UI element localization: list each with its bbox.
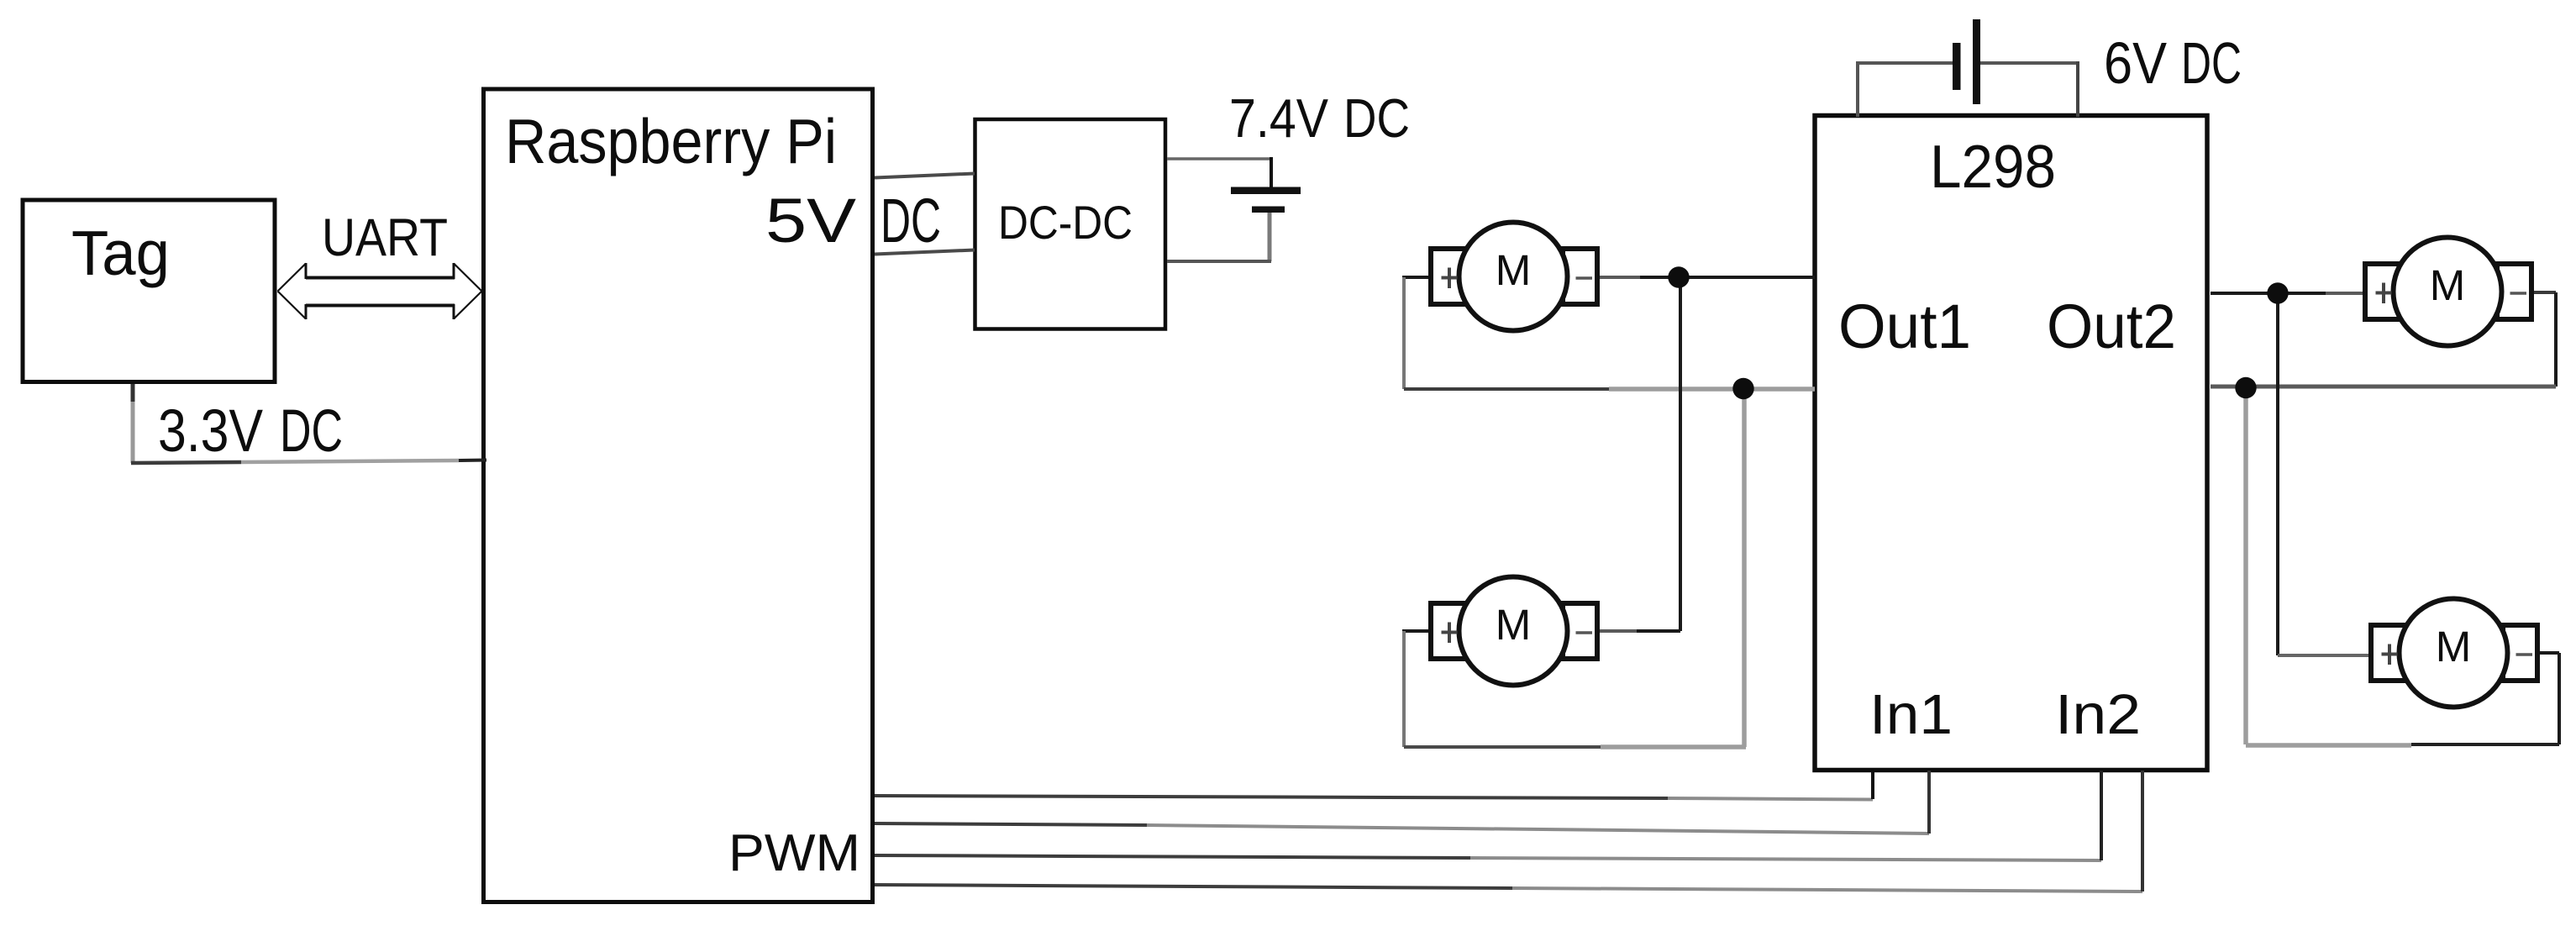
svg-text:Out2: Out2: [2047, 292, 2176, 361]
svg-text:M: M: [2430, 261, 2465, 309]
svg-text:In2: In2: [2055, 683, 2141, 746]
svg-text:M: M: [2436, 623, 2471, 671]
svg-text:In1: In1: [1869, 683, 1953, 746]
svg-text:L298: L298: [1930, 133, 2056, 201]
svg-text:3.3V: 3.3V: [158, 398, 264, 465]
svg-text:DC: DC: [1343, 87, 1410, 149]
svg-text:M: M: [1496, 246, 1531, 294]
svg-text:5V: 5V: [765, 186, 857, 255]
svg-text:Tag: Tag: [71, 218, 170, 288]
svg-text:DC: DC: [2181, 30, 2242, 96]
svg-text:DC: DC: [881, 186, 941, 255]
svg-text:7.4V: 7.4V: [1229, 87, 1329, 149]
svg-text:PWM: PWM: [728, 823, 860, 882]
svg-text:DC-DC: DC-DC: [998, 196, 1133, 249]
svg-text:Raspberry Pi: Raspberry Pi: [505, 106, 837, 176]
svg-text:UART: UART: [322, 208, 448, 267]
svg-text:M: M: [1496, 601, 1531, 649]
svg-text:DC: DC: [280, 398, 343, 465]
svg-text:Out1: Out1: [1838, 292, 1971, 361]
svg-text:6V: 6V: [2104, 30, 2167, 96]
